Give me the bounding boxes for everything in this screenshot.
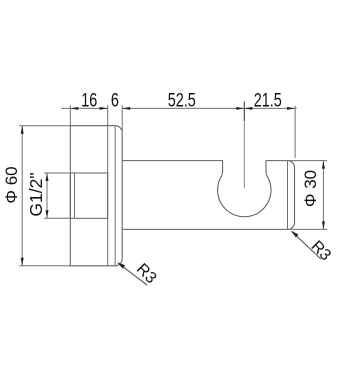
top dimension line segment 16 <box>61 107 107 109</box>
svg-text:6: 6 <box>111 88 119 111</box>
G1/2 bottom extension line <box>44 217 70 219</box>
svg-text:21.5: 21.5 <box>254 88 282 111</box>
extension line left face <box>69 105 71 125</box>
Phi60 bottom extension line <box>19 265 70 267</box>
svg-text:52.5: 52.5 <box>168 88 196 111</box>
arrow at 16 right <box>100 107 108 110</box>
Phi60 dimension line <box>21 126 23 266</box>
top dimension line segment 52.5 / 21.5 <box>122 107 297 109</box>
Phi30 bottom extension line <box>290 228 327 230</box>
arrow G1/2 top <box>46 173 49 181</box>
notch centerline upper (dimension extension) <box>243 102 245 122</box>
Phi30 top extension line <box>288 160 328 162</box>
G1/2 dimension line <box>46 173 48 218</box>
notch centerline lower <box>243 121 245 188</box>
extension line disc face <box>121 105 123 131</box>
R3 leader left <box>118 263 147 286</box>
G1/2 thread inner line <box>74 173 76 218</box>
arrow Phi30 bottom <box>322 221 325 229</box>
flange internal edge at 16/6 boundary <box>107 126 109 266</box>
svg-text:G1/2": G1/2" <box>26 172 46 216</box>
arrow at 52.5 right <box>236 107 244 110</box>
svg-text:16: 16 <box>81 88 97 111</box>
arrow G1/2 bottom <box>46 210 49 218</box>
arrow R3 left leader <box>117 262 125 268</box>
extension line arm right end <box>294 106 296 158</box>
arrow Phi60 bottom <box>21 258 24 266</box>
flange outline (Phi60 block with R3 rim) <box>70 126 122 266</box>
svg-text:Φ 30: Φ 30 <box>301 170 320 207</box>
G1/2 top extension line <box>44 172 70 174</box>
svg-text:Φ 60: Φ 60 <box>2 166 21 203</box>
arm outline with notch and rounded end <box>122 161 294 230</box>
R3 leader right <box>292 231 321 259</box>
extension line 16/6 boundary <box>107 105 109 125</box>
G1/2 thread socket rectangle <box>70 173 107 218</box>
arrow Phi60 top <box>21 126 24 134</box>
arm end tangent line <box>287 161 289 230</box>
arrow at 16 left <box>70 107 78 110</box>
arrow at 21.5 left <box>244 107 252 110</box>
Phi60 top extension line <box>19 125 70 127</box>
arrow at 52.5 left <box>122 107 130 110</box>
Phi30 dimension line <box>322 161 324 230</box>
arrow R3 right leader <box>291 231 299 238</box>
arrow at 21.5 right <box>287 107 295 110</box>
arrow Phi30 top <box>322 161 325 169</box>
flange rim tangent line <box>114 126 116 266</box>
